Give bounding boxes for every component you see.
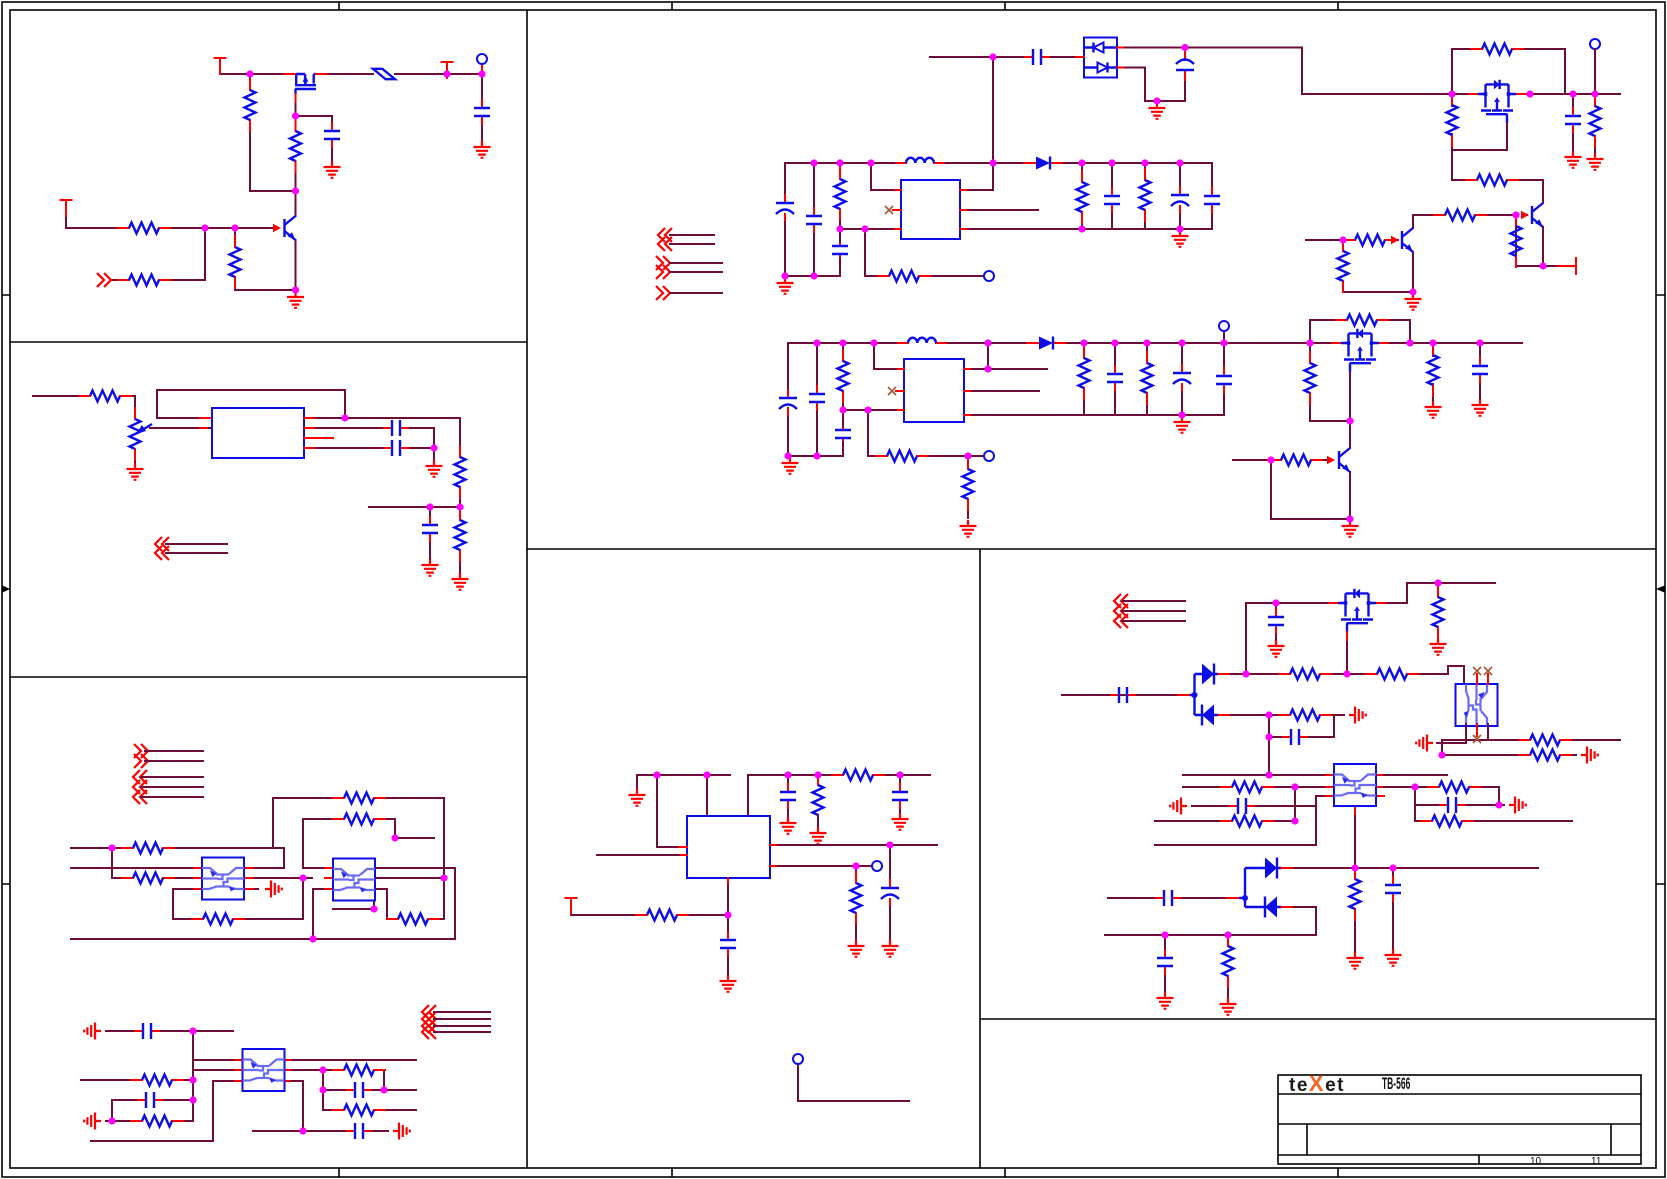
svg-text:10: 10 <box>1530 1156 1542 1167</box>
svg-text:TB-566: TB-566 <box>1382 1074 1410 1093</box>
svg-text:11: 11 <box>1591 1156 1602 1167</box>
svg-text:teXet: teXet <box>1289 1071 1345 1096</box>
